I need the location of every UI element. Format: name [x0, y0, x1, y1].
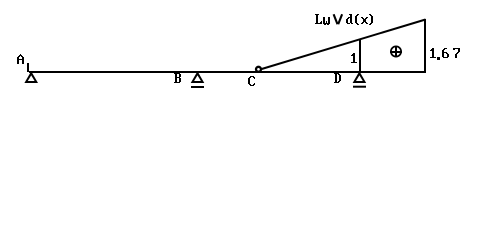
right end closing vertical (ordinate 1.67): [424, 19, 426, 73]
hinge C (internal hinge circle): [256, 67, 261, 72]
label A: [17, 54, 24, 64]
beam baseline A-to-right-end: [29, 71, 426, 73]
support B roller base line: [191, 86, 204, 88]
ordinate line at D (value 1): [359, 39, 361, 72]
support B (roller triangle): [191, 71, 205, 83]
left end tick at A: [27, 63, 29, 72]
influence line sloped segment C to top-right corner: [260, 20, 426, 70]
label D: [334, 73, 341, 83]
label B: [174, 73, 181, 83]
ordinate value label 1.67: [430, 48, 460, 60]
support D roller base line: [353, 86, 366, 88]
ordinate value label 1: [351, 53, 357, 63]
circled-plus region marker: [390, 46, 402, 57]
label C: [248, 76, 255, 86]
influence line title LwVd(x): [315, 14, 373, 25]
support A (pin triangle): [24, 71, 38, 83]
support D (roller triangle): [353, 71, 367, 83]
